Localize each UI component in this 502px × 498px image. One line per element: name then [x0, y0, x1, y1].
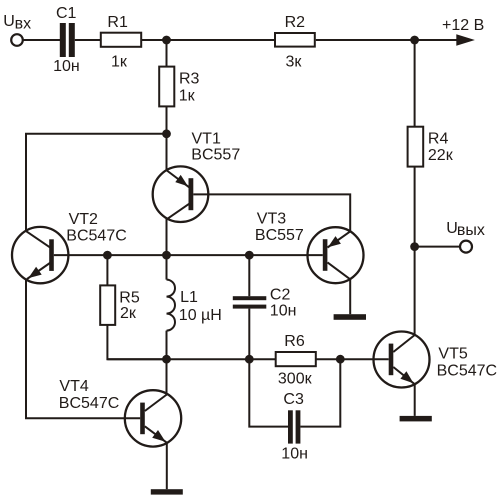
wire mid rail base VT2 to VT3	[54, 254, 323, 256]
svg-text:22к: 22к	[428, 147, 454, 164]
transistor VT4 collector line	[145, 395, 167, 412]
transistor VT1 emitter line	[166, 170, 190, 188]
ground VT4	[151, 489, 183, 494]
svg-text:1к: 1к	[111, 54, 128, 71]
wire R5 top lead	[106, 255, 108, 285]
wire input to C1	[23, 39, 60, 41]
svg-text:BC557: BC557	[191, 147, 240, 164]
wire VT5 emitter to ground	[414, 384, 416, 416]
wire R2 to supply arrow	[316, 39, 457, 41]
svg-text:вых: вых	[457, 222, 485, 239]
svg-text:R2: R2	[285, 14, 306, 31]
svg-text:R4: R4	[428, 130, 449, 147]
capacitor C2	[233, 296, 266, 308]
wire bottom rail right segment R6 to VT5 base	[316, 358, 389, 360]
transistor VT2 emitter arrow	[28, 267, 41, 278]
wire VT5 collector up to R4	[414, 168, 416, 336]
svg-text:C3: C3	[283, 391, 304, 408]
transistor VT4 emitter line	[145, 426, 167, 442]
terminal Uvx input	[11, 34, 23, 46]
svg-text:1к: 1к	[179, 88, 196, 105]
transistor VT3 emitter line	[328, 231, 351, 247]
wire C2 bottom lead	[248, 309, 250, 360]
svg-text:C1: C1	[56, 5, 77, 22]
terminal Uvyh output	[460, 241, 472, 253]
wire R1 to R2	[142, 39, 275, 41]
resistor R5	[100, 285, 115, 325]
svg-text:+12 В: +12 В	[442, 17, 484, 34]
capacitor C3	[288, 410, 300, 443]
svg-text:3к: 3к	[286, 53, 303, 70]
transistor VT5 body	[374, 332, 430, 388]
transistor VT2 emitter line	[27, 262, 51, 279]
label Uvyh	[446, 220, 485, 239]
node junction R2 R4	[410, 36, 419, 45]
wire R3 to VT1 emitter	[166, 106, 168, 170]
wire R4 top lead	[414, 40, 416, 127]
transistor VT5 collector line	[393, 335, 414, 352]
wire VT4 collector lead	[166, 359, 168, 395]
svg-text:BC547C: BC547C	[66, 227, 126, 244]
node junction C3 left	[245, 355, 254, 364]
svg-text:10н: 10н	[270, 303, 297, 320]
svg-text:R5: R5	[119, 289, 140, 306]
node junction R1 R3	[162, 36, 171, 45]
node junction R5 top	[103, 251, 112, 260]
wire node to R3	[166, 40, 168, 67]
capacitor C1	[60, 23, 75, 57]
transistor VT2 collector line	[26, 231, 51, 248]
transistor VT1 body	[153, 166, 209, 222]
svg-text:10 µH: 10 µH	[179, 307, 222, 324]
transistor VT5 base bar	[389, 344, 394, 376]
supply arrow +12V	[456, 34, 475, 45]
label Uvx	[3, 13, 31, 33]
wire L1 top lead	[166, 255, 168, 280]
transistor VT4 base bar	[140, 403, 145, 435]
resistor R6	[276, 352, 316, 366]
svg-text:L1: L1	[180, 289, 198, 306]
transistor VT4 body	[125, 390, 181, 446]
wire C1 to R1	[75, 39, 101, 41]
svg-text:U: U	[3, 13, 15, 30]
transistor VT3 emitter arrow	[328, 236, 341, 247]
wire C2 top lead	[248, 255, 250, 296]
transistor VT5 emitter line	[393, 367, 414, 384]
wire VT2 emitter to VT4 base	[26, 280, 140, 419]
svg-text:BC557: BC557	[255, 227, 304, 244]
svg-text:VT2: VT2	[69, 211, 98, 228]
node junction VT4 collector	[162, 355, 171, 364]
svg-text:BC547C: BC547C	[59, 395, 119, 412]
svg-text:VT1: VT1	[192, 130, 221, 147]
node junction C3 right	[336, 355, 345, 364]
ground VT5	[400, 416, 432, 422]
svg-text:R1: R1	[107, 14, 128, 31]
node junction R3 left-branch	[162, 129, 171, 138]
svg-text:R3: R3	[179, 71, 200, 88]
transistor VT1 base bar	[189, 178, 194, 210]
ground VT3	[334, 314, 366, 320]
wire C3 left bracket	[249, 359, 288, 426]
transistor VT2 base bar	[49, 239, 54, 271]
svg-text:C2: C2	[270, 286, 291, 303]
svg-text:BC547C: BC547C	[437, 362, 497, 379]
svg-text:10н: 10н	[53, 58, 80, 75]
transistor VT3 collector line	[328, 262, 351, 279]
transistor VT1 collector line	[166, 203, 191, 220]
node junction output	[410, 242, 419, 251]
transistor VT4 emitter arrow	[152, 430, 165, 442]
wire VT3 collector to ground	[349, 279, 351, 314]
svg-text:вх: вх	[15, 15, 32, 32]
wire output tap	[415, 246, 460, 248]
svg-text:VT5: VT5	[438, 345, 467, 362]
wire L1 bottom lead	[166, 331, 168, 360]
inductor L1 coil	[167, 280, 176, 331]
wire R5 bottom lead	[107, 325, 167, 359]
wire C3 right bracket	[300, 359, 340, 426]
transistor VT2 body	[12, 227, 68, 283]
node junction L1 top	[162, 251, 171, 260]
wire left branch to VT2 collector	[26, 134, 167, 231]
wire VT4 emitter to ground	[166, 443, 168, 490]
svg-text:2к: 2к	[120, 305, 137, 322]
svg-text:VT4: VT4	[59, 378, 88, 395]
svg-text:300к: 300к	[278, 370, 313, 387]
wire bottom rail left segment	[107, 358, 275, 360]
node junction C2 top	[245, 251, 254, 260]
resistor R3	[159, 67, 174, 107]
svg-text:10н: 10н	[281, 446, 308, 463]
wire VT1 base to VT3 emitter	[193, 194, 350, 231]
transistor VT3 base bar	[323, 239, 328, 271]
transistor VT3 body	[308, 227, 364, 283]
resistor R1	[101, 33, 141, 47]
transistor VT1 emitter arrow	[175, 175, 188, 186]
transistor VT5 emitter arrow	[400, 371, 413, 383]
wire VT1 collector down	[166, 219, 168, 255]
resistor R2	[275, 33, 315, 47]
resistor R4	[408, 127, 424, 167]
svg-text:R6: R6	[284, 333, 305, 350]
svg-text:VT3: VT3	[257, 211, 286, 228]
